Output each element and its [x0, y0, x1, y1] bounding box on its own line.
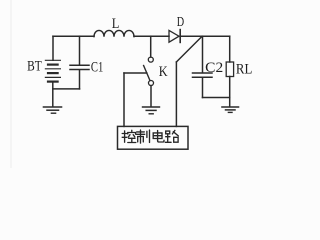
- svg-text:C1: C1: [91, 59, 103, 75]
- svg-text:L: L: [112, 16, 120, 32]
- svg-text:K: K: [159, 64, 168, 80]
- svg-text:BT: BT: [27, 59, 42, 75]
- svg-text:C2: C2: [205, 60, 223, 76]
- svg-text:RL: RL: [236, 62, 252, 78]
- svg-text:D: D: [177, 15, 184, 30]
